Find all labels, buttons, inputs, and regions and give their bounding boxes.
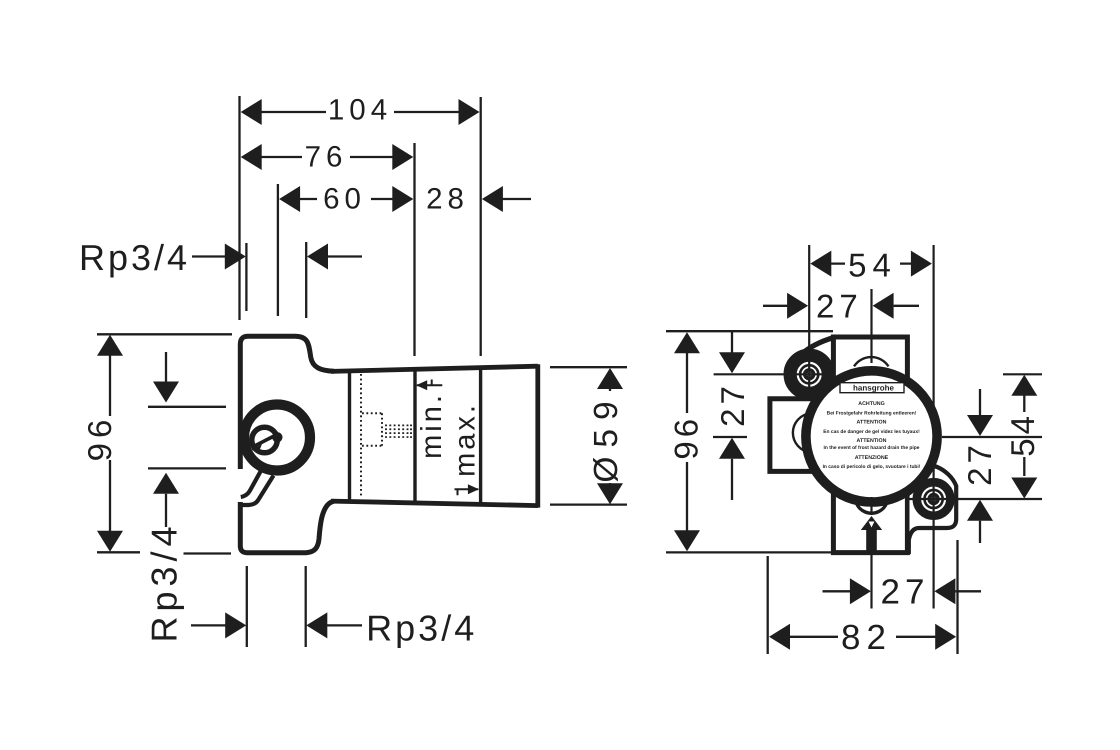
wire: tail 27 left upper	[731, 331, 733, 352]
arrow 82 right	[935, 624, 956, 650]
svg-text:max.: max.	[450, 402, 482, 477]
protective sleeve bottom edge	[331, 501, 538, 506]
svg-text:60: 60	[323, 183, 366, 216]
wire: tail 27 right upper	[979, 389, 981, 416]
top screw ring inner white	[802, 367, 816, 381]
dimension D59 line	[609, 373, 611, 500]
arrow 60 right	[392, 186, 413, 212]
arrow port bottom pointing up	[153, 473, 179, 494]
dimension 60 line	[284, 198, 408, 200]
spindle screw slot line	[252, 435, 277, 448]
arrow min pointing left	[416, 380, 427, 390]
wire: extension line x=277.9 (60 left / spindle axis)	[277, 184, 279, 316]
dimension 76 line	[246, 156, 408, 158]
wire: top screw horizontal crosshair	[714, 373, 833, 375]
svg-text:min.: min.	[416, 392, 448, 459]
arrow 104 right	[459, 99, 480, 125]
bottom screw ring inner white	[927, 492, 941, 506]
arrow bottom port right pointing left	[306, 612, 327, 638]
wire: tail 27 bottom right	[955, 590, 981, 592]
svg-text:ACHTUNG: ACHTUNG	[858, 401, 884, 407]
hidden cartridge dotted top	[362, 412, 382, 414]
top-left lobe spiral curve	[801, 338, 834, 355]
top stub rectangle	[833, 337, 907, 385]
svg-text:28: 28	[426, 183, 469, 216]
arrow 27 right pointing down	[967, 415, 993, 436]
wire: tail of bottom left arrow	[191, 624, 226, 626]
svg-text:Ø59: Ø59	[588, 392, 625, 482]
arrow 96 bottom	[97, 531, 123, 552]
arrow 54 right top	[1011, 375, 1037, 396]
svg-text:76: 76	[305, 140, 348, 173]
arrow bottom port left pointing right	[225, 612, 246, 638]
wire: extension line x=480.7 (104/28 right, max plane)	[480, 97, 482, 356]
svg-text:96: 96	[668, 415, 705, 460]
wire: center line top	[870, 289, 872, 363]
wire: left short extension y=437	[713, 436, 747, 438]
flow arrow white notch	[869, 522, 875, 528]
flange notch diagonal lower with foot	[241, 476, 274, 506]
wire: top extension y=331.2	[666, 330, 833, 332]
bottom stub rectangle	[833, 490, 907, 553]
spindle boss ring	[244, 405, 310, 471]
wire: right extension y=374.3	[1003, 373, 1042, 375]
hidden spring dotted coils	[386, 425, 411, 439]
wire: extension line x=239.5 (104/76 left)	[238, 96, 240, 320]
wire: extension line y=552.3 (96 bottom left)	[97, 551, 140, 553]
wire: tail above port down-arrow	[165, 352, 167, 382]
wire: extension line y=553.5 (bottom right seg)	[184, 552, 232, 554]
svg-text:ATTENZIONE: ATTENZIONE	[855, 455, 889, 461]
arrow max pointing right	[468, 484, 479, 494]
dimension 104 line	[246, 111, 475, 113]
spindle screw tongue	[251, 444, 262, 452]
valve body flange outline	[240, 336, 334, 469]
dimension 96 line (left view)	[109, 338, 111, 547]
hansgrohe label plate	[840, 383, 904, 393]
wire: port extension line y=468.4	[148, 467, 226, 469]
wire: extension line x=306.2 (Rp3/4 port right)	[305, 242, 307, 318]
bottom screw cross slot	[931, 496, 937, 502]
wire: tail 27 right lower	[979, 521, 981, 543]
svg-text:27: 27	[961, 441, 998, 486]
arrow 104 left	[241, 99, 262, 125]
wire: port extension line y=406.8	[148, 406, 226, 408]
svg-text:In the event of frost hazard d: In the event of frost hazard drain the p…	[824, 445, 920, 451]
dimension 96 line (front)	[686, 337, 688, 546]
wire: bottom screw horizontal crosshair	[905, 498, 1042, 500]
wire: right extension y=437	[942, 436, 1042, 438]
bottom-right screw blob	[915, 480, 953, 518]
wire: extension line y=334.3 (96 top)	[97, 333, 232, 335]
bottom screw ring outer white	[922, 488, 945, 511]
spindle screw small ring	[252, 427, 278, 453]
wire: center line bottom	[870, 553, 872, 609]
svg-text:hansgrohe: hansgrohe	[853, 384, 894, 393]
arrow 76 left	[241, 144, 262, 170]
wire: tail 27 bottom left	[823, 590, 851, 592]
top screw ring outer white	[798, 363, 821, 386]
spindle center dot	[272, 432, 282, 442]
wire: extension line y=368 (D59 top)	[550, 366, 627, 368]
wire: bottom port extension x=305.7	[305, 566, 307, 647]
svg-text:Rp3/4: Rp3/4	[144, 521, 185, 642]
wire: extension line x=246.4 (Rp3/4 port left)	[245, 243, 247, 311]
svg-text:Rp3/4: Rp3/4	[366, 608, 477, 649]
arrow 54 top right	[911, 251, 932, 277]
svg-text:27: 27	[881, 573, 930, 612]
max leader with riser	[455, 489, 479, 495]
arrow Rp3/4 leader pointing right	[225, 244, 246, 270]
svg-text:27: 27	[816, 287, 863, 324]
svg-text:27: 27	[714, 382, 751, 427]
arrow 28 outside right	[482, 186, 503, 212]
svg-text:104: 104	[328, 93, 392, 126]
arrow 27 left pointing down	[719, 352, 745, 373]
wire: tail of port arrow	[327, 255, 362, 257]
arrow 27 left pointing up	[719, 438, 745, 459]
wire: tail of 28 arrow	[502, 198, 531, 200]
svg-text:54: 54	[1004, 412, 1041, 457]
wire: tail 27 top right	[894, 305, 919, 307]
wire: top screw vertical crosshair	[808, 245, 810, 400]
svg-text:En cas de danger de gel videz: En cas de danger de gel videz les tuyaux…	[823, 429, 920, 435]
wire: bottom port extension x=246.8	[246, 566, 248, 647]
wire: bottom extension y=552.4	[666, 551, 833, 553]
min leader with riser	[417, 380, 443, 386]
arrow 82 left	[769, 624, 790, 650]
wire: leader Rp3/4 top	[192, 255, 226, 257]
wire: bottom screw vertical crosshair	[932, 245, 934, 609]
arrow front 96 top	[674, 332, 700, 353]
arrow 27 right pointing up	[967, 500, 993, 521]
arrow 27 bottom pointing left	[934, 578, 955, 604]
dimension 82 line	[774, 636, 951, 638]
wire: tail 27 left lower	[731, 459, 733, 500]
svg-text:In caso di pericolo di gelo, s: In caso di pericolo di gelo, svuotare i …	[823, 464, 921, 470]
wire: extension line y=504.3 (D59 bottom)	[550, 503, 627, 505]
top pipe joint arc	[854, 357, 889, 366]
protective sleeve top edge	[331, 366, 538, 371]
wire: center line through drain socket	[870, 497, 872, 515]
dimension 54 top line	[815, 262, 928, 264]
arrow 27 top pointing right	[787, 293, 808, 319]
drain socket hammock arc	[857, 504, 887, 514]
flow direction arrow in bottom stub	[861, 516, 882, 553]
flange face line x=349.5	[348, 371, 351, 501]
flange lower left and bottom edge with step	[240, 501, 334, 553]
svg-text:ATTENTION: ATTENTION	[857, 420, 887, 426]
arrow 76 right	[392, 144, 413, 170]
min plane divider x=415	[413, 369, 416, 501]
arrow D59 bottom	[597, 483, 623, 504]
arrow 54 right bottom	[1011, 478, 1037, 499]
arrow 60 left	[279, 186, 300, 212]
wire: tail 27 top left	[763, 305, 788, 307]
arrow front 96 bottom	[674, 530, 700, 551]
flange notch diagonal upper	[241, 472, 261, 498]
wire: leader to bottom Rp3/4	[327, 624, 362, 626]
hidden cartridge dotted right	[381, 413, 383, 446]
top screw cross slot	[806, 372, 812, 378]
arrow port top pointing down	[153, 382, 179, 403]
svg-text:54: 54	[848, 247, 897, 284]
wire: extension x=957.5 bottom	[956, 540, 958, 654]
max plane divider x=480.6	[479, 368, 482, 503]
left pipe joint arc	[793, 413, 811, 452]
protective sleeve right end edge	[535, 364, 540, 507]
svg-text:ATTENTION: ATTENTION	[857, 438, 887, 444]
top-left screw lobe disc	[785, 350, 833, 398]
svg-text:96: 96	[81, 415, 118, 462]
svg-text:82: 82	[841, 618, 892, 657]
dimension 54 right line	[1023, 395, 1025, 476]
svg-text:Rp3/4: Rp3/4	[79, 237, 190, 278]
bottom-right lobe tab	[907, 467, 956, 553]
main circle ring	[806, 371, 937, 502]
arrow 27 top pointing left	[873, 293, 894, 319]
wire: extension line x=414.5 (76/60 right, min plane)	[413, 143, 415, 356]
arrow D59 top	[597, 368, 623, 389]
arrow 96 top	[97, 335, 123, 356]
wire: extension x=767.7 bottom	[767, 556, 769, 654]
hidden bore dotted line	[360, 374, 362, 497]
arrow 54 top left	[810, 251, 831, 277]
arrow 27 bottom pointing right	[850, 578, 871, 604]
left stub rectangle	[770, 399, 815, 472]
hidden cartridge dotted bottom	[362, 445, 382, 447]
arrow port right outside pointing left	[307, 244, 328, 270]
wire: tail below port up-arrow	[165, 494, 167, 527]
svg-text:Bei Frostgefahr Rohrleitung en: Bei Frostgefahr Rohrleitung entleeren!	[827, 411, 917, 417]
